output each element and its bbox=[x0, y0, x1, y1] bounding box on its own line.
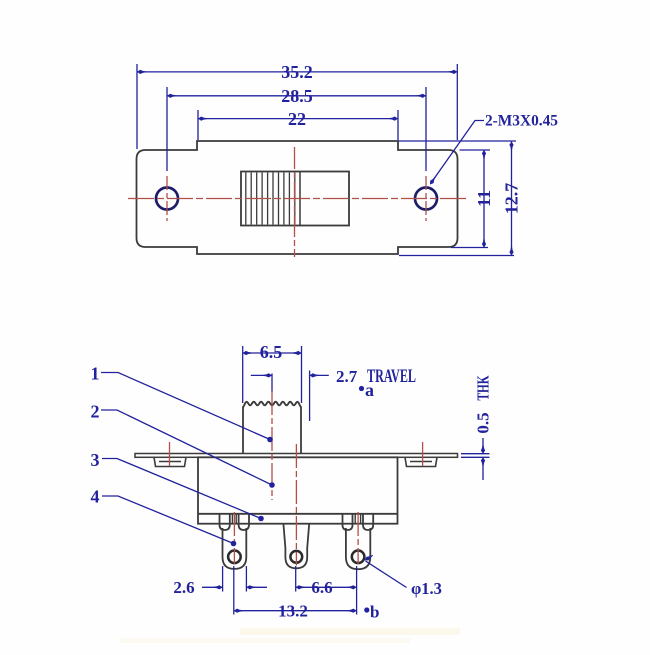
svg-text:13.2: 13.2 bbox=[278, 602, 308, 621]
svg-text:a: a bbox=[365, 380, 374, 400]
svg-text:0.5: 0.5 bbox=[473, 412, 492, 433]
svg-text:28.5: 28.5 bbox=[281, 86, 313, 106]
svg-text:b: b bbox=[370, 603, 379, 622]
svg-text:6.5: 6.5 bbox=[260, 342, 283, 362]
svg-text:φ1.3: φ1.3 bbox=[411, 579, 442, 598]
svg-text:2.6: 2.6 bbox=[173, 578, 194, 597]
svg-text:11: 11 bbox=[474, 190, 494, 207]
svg-text:3: 3 bbox=[91, 450, 100, 470]
svg-text:12.7: 12.7 bbox=[502, 183, 522, 215]
svg-text:TRAVEL: TRAVEL bbox=[367, 366, 416, 387]
svg-text:2.7: 2.7 bbox=[336, 367, 358, 386]
svg-text:1: 1 bbox=[91, 364, 100, 384]
svg-text:2: 2 bbox=[91, 402, 100, 422]
svg-text:THK: THK bbox=[473, 375, 492, 401]
svg-text:22: 22 bbox=[288, 109, 306, 129]
svg-text:2-M3X0.45: 2-M3X0.45 bbox=[485, 113, 558, 130]
svg-text:35.2: 35.2 bbox=[281, 62, 313, 82]
svg-text:4: 4 bbox=[91, 487, 100, 507]
svg-text:6.6: 6.6 bbox=[311, 578, 332, 597]
